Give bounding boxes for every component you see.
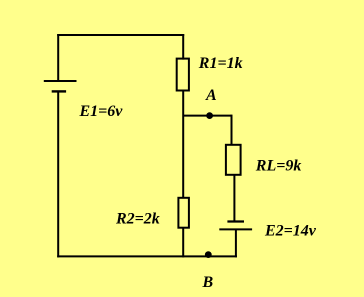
svg-text:E2=14v: E2=14v [264, 223, 317, 240]
resistor R2 [178, 198, 189, 228]
svg-text:R1=1k: R1=1k [198, 55, 243, 72]
svg-text:RL=9k: RL=9k [255, 158, 302, 175]
battery E2 long plate [219, 228, 252, 230]
wire middle vertical R2 to bottom [182, 228, 184, 258]
wire RL to E2 [233, 175, 235, 223]
svg-text:R2=2k: R2=2k [115, 211, 160, 228]
svg-text:E1=6v: E1=6v [79, 103, 124, 120]
node A dot [206, 112, 213, 119]
wire left vertical upper [57, 34, 59, 81]
svg-text:B: B [202, 274, 214, 291]
wire middle vertical R1 to R2 [182, 90, 184, 198]
node A wire horizontal [183, 115, 231, 117]
wire left vertical lower [57, 91, 59, 257]
resistor R1 [177, 59, 189, 91]
wire top-right vertical to R1 [182, 34, 184, 60]
battery E2 short plate [227, 220, 244, 222]
wire bottom horizontal [57, 255, 237, 257]
wire top horizontal [57, 34, 184, 36]
battery E1 long plate [44, 80, 77, 82]
battery E1 short plate [52, 90, 66, 92]
wire right vertical A to RL [231, 115, 233, 146]
wire E2 to bottom [235, 229, 237, 257]
node B dot [205, 251, 212, 258]
svg-text:A: A [205, 87, 217, 104]
resistor RL [226, 145, 241, 175]
